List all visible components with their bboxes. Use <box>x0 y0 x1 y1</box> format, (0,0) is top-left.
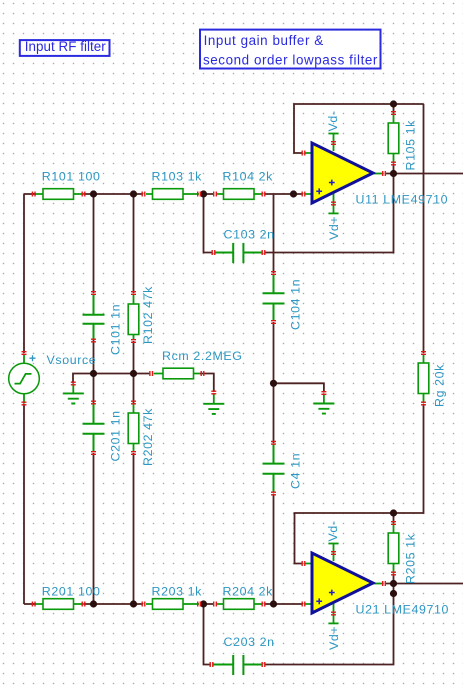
resistor Rg <box>418 352 446 407</box>
svg-text:Vd-: Vd- <box>326 110 340 131</box>
svg-text:C101 1n: C101 1n <box>109 304 123 355</box>
junction node C201 bottom <box>90 600 97 607</box>
wire bottom row y=604 <box>24 603 303 605</box>
wire C103 right to U11 output node <box>265 174 394 253</box>
svg-text:Vd+: Vd+ <box>327 626 341 650</box>
svg-text:C103 2n: C103 2n <box>224 228 275 242</box>
svg-text:U11 LME49710: U11 LME49710 <box>356 193 449 207</box>
resistor R103 <box>142 170 202 200</box>
resistor R201 <box>32 585 100 610</box>
wire R205 branch x=393.5 <box>393 513 395 584</box>
junction node C203 tap bottom <box>200 600 207 607</box>
wire R102/R202 column x=133.5 <box>133 194 135 604</box>
junction node U21 loop top <box>390 509 397 516</box>
svg-text:C104 1n: C104 1n <box>289 279 303 330</box>
junction node C103 tap top <box>200 190 207 197</box>
capacitor C104 <box>263 272 303 330</box>
svg-text:R103 1k: R103 1k <box>152 170 203 184</box>
wire C203 right to U21 output node <box>265 584 394 665</box>
svg-text:R201 100: R201 100 <box>42 585 101 599</box>
resistor R205 <box>388 522 417 584</box>
svg-text:R205 1k: R205 1k <box>404 533 418 584</box>
capacitor C101 <box>83 292 123 355</box>
capacitor C4 <box>263 442 303 495</box>
wire C104 midpoint to ground G3 <box>274 383 324 392</box>
resistor Rcm <box>150 349 243 379</box>
junction dot below U21 output <box>390 590 397 597</box>
capacitor C203 <box>210 635 274 675</box>
junction node U11 loop top <box>390 100 397 107</box>
resistor R104 <box>214 170 273 200</box>
svg-text:R203 1k: R203 1k <box>152 585 203 599</box>
wire right rail x=423.5 through Rg <box>394 104 424 513</box>
capacitor C201 <box>83 401 123 461</box>
svg-text:Rg 20k: Rg 20k <box>433 364 447 407</box>
svg-text:R202 47k: R202 47k <box>141 408 155 466</box>
svg-text:R101 100: R101 100 <box>42 170 101 184</box>
wire U11 output to right edge <box>385 173 463 175</box>
wire C101/C201 column x=93.5 <box>93 194 95 604</box>
junction dot before U11 input <box>290 190 297 197</box>
op-amp U11 <box>302 110 448 240</box>
resistor R204 <box>214 585 273 610</box>
wire R105 branch x=393.5 <box>393 104 395 174</box>
junction node R202 bottom <box>130 600 137 607</box>
junction node R102 middle <box>130 370 137 377</box>
junction node R102 top <box>130 190 137 197</box>
wire U21 output to right edge <box>385 583 463 585</box>
wire middle row y=373.5 to ground and Rcm <box>73 374 214 393</box>
ground G2 right of Rcm <box>203 391 224 414</box>
junction node U11 output <box>390 170 397 177</box>
junction node C104 middle <box>270 380 277 387</box>
svg-text:U21 LME49710: U21 LME49710 <box>356 603 450 617</box>
wire C203 tap from node between R203/R204 <box>204 604 212 665</box>
resistor R203 <box>142 585 202 610</box>
wire U11 feedback loop <box>294 104 424 153</box>
svg-text:Input RF filter: Input RF filter <box>25 39 107 54</box>
resistor R105 <box>388 112 417 171</box>
svg-text:R102 47k: R102 47k <box>141 286 155 344</box>
junction node C101 middle <box>90 370 97 377</box>
svg-text:C203 2n: C203 2n <box>224 635 275 649</box>
op-amp U21 <box>302 520 449 650</box>
svg-text:Input gain buffer &: Input gain buffer & <box>204 33 324 48</box>
junction node R101/C101 top <box>90 190 97 197</box>
ground G1 near Vsource <box>63 382 84 403</box>
svg-text:R104 2k: R104 2k <box>223 170 274 184</box>
resistor R101 <box>32 170 100 200</box>
svg-text:C201 1n: C201 1n <box>109 410 123 461</box>
ground G3 middle column <box>313 392 334 414</box>
resistor R202 <box>128 401 155 466</box>
svg-text:Vd+: Vd+ <box>327 216 341 240</box>
svg-text:C4 1n: C4 1n <box>289 453 303 489</box>
capacitor C103 <box>212 228 274 264</box>
svg-text:Vsource: Vsource <box>47 353 97 367</box>
svg-text:R204 2k: R204 2k <box>223 585 274 599</box>
wire C103 tap from node between R103/R104 <box>204 194 213 253</box>
text box Input gain buffer <box>200 30 381 69</box>
junction node U21 output <box>390 580 397 587</box>
resistor R102 <box>128 286 155 344</box>
svg-text:Rcm 2.2MEG: Rcm 2.2MEG <box>162 349 243 363</box>
wire top row y=194 <box>24 194 303 604</box>
voltage source Vsource <box>9 352 97 405</box>
wire U21 feedback loop <box>295 513 394 564</box>
svg-text:second order lowpass filter: second order lowpass filter <box>203 52 378 67</box>
text box Input RF filter <box>20 39 110 56</box>
wire C104/C4 column x=273.5 <box>273 194 275 604</box>
svg-text:Vd-: Vd- <box>326 520 340 541</box>
svg-text:R105 1k: R105 1k <box>404 120 418 171</box>
junction node C4 bottom <box>270 600 277 607</box>
